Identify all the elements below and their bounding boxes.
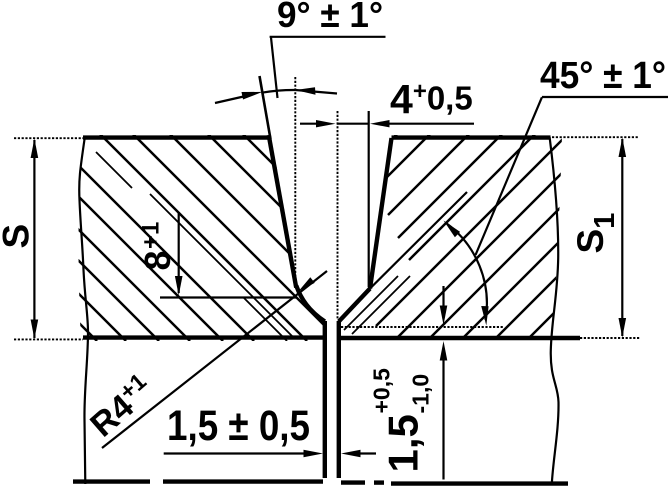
right plate bottom surface — [341, 336, 580, 340]
hatching left plate — [0, 108, 450, 341]
1,5 gap dimension right arrow — [341, 450, 361, 457]
gap right edge wire — [337, 321, 341, 478]
svg-text:9° ± 1°: 9° ± 1° — [277, 0, 383, 35]
left plate bevel edge 9deg with extension above — [260, 76, 271, 139]
svg-text:4+0,5: 4+0,5 — [390, 76, 473, 122]
chamfer-top extension line (solid) — [368, 111, 370, 287]
root face reference line (dotted) — [341, 326, 503, 328]
1,5+0,5-1,0 dimension lower line with up arrow — [442, 360, 444, 480]
45deg arc upper arrow — [444, 221, 461, 238]
1,5 gap dimension line left with arrow — [164, 452, 305, 454]
R4+1 arrowhead — [299, 277, 315, 291]
gap left edge wire — [323, 321, 327, 478]
45deg label underline — [542, 96, 668, 98]
45deg angle arc — [446, 223, 487, 320]
S dimension line with arrows — [33, 140, 35, 338]
left plate break line (wavy) — [79, 136, 88, 484]
left plate bottom surface — [83, 335, 323, 339]
right plate break line (wavy) — [550, 137, 559, 484]
svg-text:S: S — [0, 224, 37, 249]
bottom broken edge of plates — [73, 479, 150, 483]
1,5+0,5-1,0 dimension upper arrow — [442, 286, 444, 306]
8+1 dimension line with down arrow — [178, 212, 180, 293]
45deg chamfer extension line — [370, 192, 467, 289]
9deg angle arc — [262, 90, 296, 93]
hatching right plate — [364, 0, 668, 337]
LEFT PLATE — [0, 108, 450, 341]
left plate top surface — [83, 135, 270, 139]
RIGHT PLATE — [344, 0, 668, 337]
S1 dimension line with arrows — [621, 139, 623, 336]
svg-text:1,5 ± 0,5: 1,5 ± 0,5 — [167, 402, 310, 450]
right plate 45deg root chamfer — [339, 289, 370, 322]
svg-text:45° ± 1°: 45° ± 1° — [540, 55, 666, 97]
45deg leader line — [476, 97, 542, 255]
S dimension extension lines — [14, 137, 83, 139]
9deg left arrow with tail — [215, 96, 248, 104]
R4+1 leader line — [102, 271, 327, 448]
right plate top surface — [392, 135, 551, 139]
right plate bevel edge 9deg — [370, 138, 392, 289]
8+1 reference line — [160, 296, 296, 298]
9deg label leader — [271, 38, 278, 99]
extra thin hatch lines near root (left) — [96, 152, 294, 341]
S1 dimension extension lines — [552, 136, 639, 138]
9deg right arrow with tail — [295, 90, 337, 94]
extra thin hatch lines near root (right) — [344, 276, 410, 334]
4+0,5 dimension line with outside arrows — [300, 123, 318, 125]
45deg arc lower arrow — [481, 306, 488, 326]
9deg label underline — [270, 36, 386, 38]
gap right edge extension line (dotted) — [337, 111, 339, 320]
vertical reference line for 9deg (dotted) — [294, 77, 296, 288]
left plate root radius R4 curve — [296, 286, 325, 322]
